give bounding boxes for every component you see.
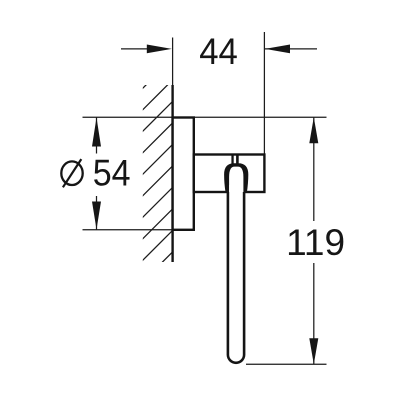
holder arm body [194,155,265,193]
extension line above wall (44 left) [172,38,174,87]
svg-text:44: 44 [199,31,238,72]
extension line top horizontal (y=117) [83,116,327,118]
ring pivot bulb (outer) [224,163,248,193]
119 bottom arrowhead [309,338,318,364]
ring tube inner white [229,185,243,362]
ring tube outer [227,183,246,364]
dimension line D54 vertical [96,118,98,230]
wall face line [171,85,173,262]
wall hatching [138,53,178,308]
svg-text:54: 54 [93,153,131,194]
dimension 44 left arrowhead [147,45,172,54]
D54 top arrowhead [92,118,101,147]
extension line bottom of plate (y=230) [83,229,174,231]
white mask behind D54 text [55,154,134,197]
diameter symbol circle [61,161,82,185]
dimension 44 right arrow shaft [265,48,317,50]
pivot pin left edge [231,154,233,165]
dimension 44 right arrowhead [265,45,290,54]
extension line front face (44 right) [263,32,265,155]
mounting plate (side view, D54) [173,118,194,230]
ring pivot bulb inner white [229,167,243,192]
dimension line 119 vertical [313,117,315,364]
white mask behind 119 text [286,221,345,263]
diameter symbol slash [63,159,81,187]
svg-text:119: 119 [286,222,345,263]
D54 bottom arrowhead [92,202,101,230]
pivot pin right edge [236,154,239,165]
extension line bottom of ring (y=364) [246,363,327,365]
dimension 44 left arrow shaft [121,48,149,50]
119 top arrowhead [309,117,318,143]
